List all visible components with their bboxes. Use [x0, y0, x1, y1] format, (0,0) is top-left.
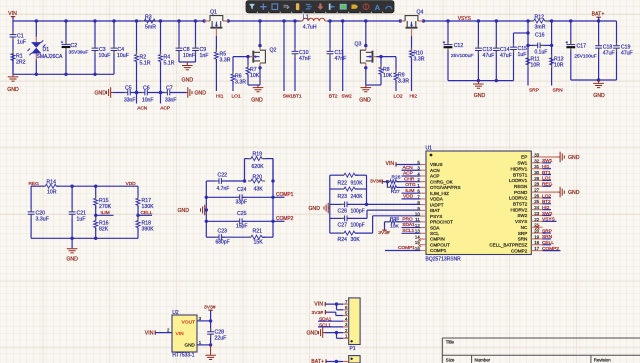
pin 15 CMPOUT: [420, 244, 426, 246]
svg-text:SW2: SW2: [341, 93, 352, 99]
svg-text:HIDRV2: HIDRV2: [511, 207, 528, 212]
svg-text:REG: REG: [542, 182, 553, 188]
net label VDD at pin7: [402, 198, 421, 200]
pin 25 BTST2: [531, 203, 542, 205]
svg-text:23: 23: [534, 211, 539, 216]
svg-text:5mR: 5mR: [145, 25, 156, 31]
svg-text:SDA1: SDA1: [402, 222, 415, 228]
no-connect CMPIN: [418, 239, 421, 242]
svg-text:1uF: 1uF: [518, 52, 527, 58]
capacitor C10 (BTST1): [294, 21, 296, 51]
svg-text:VSYS: VSYS: [515, 219, 527, 224]
net label ACP at pin4: [402, 175, 421, 177]
resistor R3 (5mR sense): [144, 19, 155, 23]
capacitor C27 / IBAT wire: [330, 217, 345, 219]
svg-text:47uF: 47uF: [603, 51, 615, 57]
resistor R14: [45, 184, 56, 188]
svg-text:R22: R22: [338, 180, 348, 186]
net label SDA1: [402, 227, 421, 229]
resistor R1: [11, 54, 15, 61]
svg-text:IBAT: IBAT: [430, 208, 440, 213]
svg-text:C5: C5: [125, 85, 132, 91]
capacitor C18: [598, 21, 600, 46]
svg-text:GND: GND: [178, 208, 190, 214]
wire SW node rail: [228, 20, 302, 22]
svg-text:SRN: SRN: [518, 237, 528, 242]
transistor Q4: [400, 20, 405, 22]
svg-text:15: 15: [415, 240, 420, 245]
pin 6 ILIM_HIZ: [420, 192, 426, 194]
wire Q2 source to gnd: [259, 63, 261, 68]
resistor R18: [136, 221, 140, 228]
toolbar icon no-erc: [363, 4, 369, 10]
ground under C28: [210, 345, 212, 355]
svg-text:GND: GND: [195, 91, 207, 97]
svg-text:R19: R19: [253, 151, 263, 157]
resistor R8: [379, 55, 382, 58]
svg-text:C17: C17: [577, 43, 587, 49]
svg-text:CHRG_OK: CHRG_OK: [430, 179, 454, 184]
svg-text:5.1R: 5.1R: [164, 61, 175, 67]
svg-text:240K: 240K: [351, 194, 364, 200]
wire VSYS rail: [423, 20, 533, 22]
pin 33 EP: [531, 156, 542, 158]
svg-text:GND: GND: [185, 342, 196, 347]
svg-text:SRN: SRN: [553, 88, 564, 94]
svg-text:SMAJ26CA: SMAJ26CA: [37, 54, 64, 60]
svg-text:R24: R24: [338, 237, 348, 243]
svg-text:NC: NC: [521, 225, 528, 230]
svg-text:GND: GND: [568, 190, 580, 196]
svg-text:COMP1: COMP1: [276, 192, 294, 198]
svg-text:C24: C24: [237, 187, 247, 193]
svg-text:HI1: HI1: [542, 164, 550, 170]
capacitor C9: [195, 21, 197, 48]
svg-text:100pF: 100pF: [351, 222, 365, 228]
svg-text:15K: 15K: [254, 240, 264, 246]
pin 3 VOUT: [197, 320, 211, 322]
svg-text:GND: GND: [66, 257, 78, 263]
resistor R26: [387, 181, 390, 183]
toolbar icon select: [272, 4, 278, 10]
svg-text:ILIM: ILIM: [405, 188, 414, 194]
svg-text:3V3#: 3V3#: [312, 310, 324, 316]
svg-text:SCL: SCL: [430, 231, 439, 236]
svg-text:LO2: LO2: [542, 193, 551, 199]
ground under Q3: [361, 85, 372, 92]
net label SW1: [543, 162, 552, 164]
svg-text:U2: U2: [172, 310, 179, 316]
net label COMP2: [273, 220, 285, 222]
wire C15 to SRP line: [514, 32, 529, 34]
svg-text:R2: R2: [140, 54, 147, 60]
svg-text:R18: R18: [142, 220, 152, 226]
wire Q1 gate / resistor R5: [215, 28, 217, 36]
wire divider bottom: [31, 237, 138, 239]
svg-text:HIDRV1: HIDRV1: [511, 166, 528, 171]
toolbar icon arc: [386, 6, 392, 9]
svg-text:P1: P1: [350, 346, 356, 352]
resistor R6: [232, 57, 234, 74]
net label CELL: [543, 244, 552, 246]
transistor Q1: [204, 20, 210, 22]
svg-text:22uF: 22uF: [215, 336, 227, 342]
svg-text:ACP: ACP: [403, 171, 413, 177]
svg-text:VDD: VDD: [126, 181, 137, 187]
svg-text:BT2: BT2: [329, 93, 338, 99]
svg-text:29: 29: [534, 176, 539, 181]
toolbar icon arrow down: [317, 3, 323, 9]
svg-text:PRO: PRO: [402, 216, 413, 222]
svg-text:ILIM: ILIM: [101, 210, 110, 216]
wire SRP line: [527, 21, 529, 86]
toolbar icon screen: [340, 4, 346, 9]
wire comp right vertical: [272, 159, 274, 238]
svg-text:Q4: Q4: [417, 9, 424, 15]
capacitor C19: [616, 21, 618, 46]
net label ACN: [135, 91, 138, 94]
svg-text:GND: GND: [95, 91, 107, 97]
wire comp left vertical: [205, 181, 207, 237]
svg-text:R23: R23: [338, 194, 348, 200]
ground comp block: [201, 205, 207, 216]
capacitor C8: [178, 21, 180, 48]
svg-text:SW1: SW1: [542, 158, 553, 164]
wire GND loop to pin1: [336, 333, 338, 339]
svg-text:R9: R9: [398, 73, 405, 79]
pin 27 PGND: [531, 191, 542, 193]
svg-text:R7: R7: [250, 67, 257, 73]
svg-text:CELL: CELL: [141, 210, 153, 216]
svg-text:620K: 620K: [252, 164, 265, 170]
resistor R9: [395, 57, 397, 73]
resistor R17: [137, 186, 139, 198]
svg-text:Q2: Q2: [270, 48, 277, 54]
svg-text:R14: R14: [47, 180, 57, 186]
svg-text:10uF: 10uF: [117, 53, 129, 59]
net label VSYS at pin22: [543, 220, 557, 222]
svg-text:GND: GND: [251, 98, 263, 104]
svg-text:GND: GND: [474, 93, 486, 99]
pin 2 VIN: [155, 332, 172, 334]
svg-text:3.3R: 3.3R: [235, 79, 246, 85]
svg-text:33nF: 33nF: [165, 98, 176, 104]
svg-text:R16: R16: [99, 220, 109, 226]
pin 12 SDA: [420, 227, 426, 229]
svg-text:VIN: VIN: [314, 301, 323, 307]
svg-text:BAT+: BAT+: [592, 11, 605, 17]
svg-text:14: 14: [415, 234, 420, 239]
title block: [442, 338, 640, 363]
pin 20 SRP: [531, 232, 542, 234]
svg-text:25: 25: [534, 199, 539, 204]
svg-text:SCL1: SCL1: [319, 323, 331, 329]
svg-text:28: 28: [534, 182, 539, 187]
svg-text:BQ25713RSNR: BQ25713RSNR: [426, 256, 462, 262]
svg-text:100pF: 100pF: [351, 208, 365, 214]
pin 8 IADPT: [420, 204, 426, 206]
svg-text:26: 26: [534, 193, 539, 198]
svg-text:HI1: HI1: [216, 93, 224, 99]
svg-text:R5: R5: [220, 52, 227, 58]
capacitor C28: [210, 321, 212, 332]
resistor R2: [136, 21, 138, 55]
capacitor C13: [477, 21, 479, 48]
toolbar icon nets: [306, 5, 312, 9]
svg-text:HT7533-1: HT7533-1: [172, 353, 194, 359]
svg-text:R25: R25: [390, 216, 399, 222]
capacitor C20: [30, 186, 32, 212]
wire Q3 source to gnd: [365, 63, 367, 68]
svg-text:Revision: Revision: [594, 357, 611, 362]
pin 5 P1: [343, 315, 349, 317]
net label SRN: [543, 238, 552, 240]
resistor R19: [244, 159, 246, 181]
pin 18 CELL_BATPRESZ: [531, 244, 542, 246]
net label LO1: [543, 179, 552, 181]
net label SCL1: [402, 232, 421, 234]
svg-text:GND: GND: [309, 206, 321, 212]
svg-text:SW1: SW1: [283, 93, 294, 99]
net label COMP1: [273, 196, 285, 198]
svg-text:COMP1: COMP1: [398, 245, 415, 251]
svg-text:10uF: 10uF: [99, 53, 111, 59]
ground at EP: [543, 156, 559, 158]
transistor Q2: [259, 21, 261, 46]
svg-text:10R: 10R: [554, 63, 564, 69]
capacitor C1: [12, 21, 14, 35]
pin 1 P1: [343, 337, 349, 339]
svg-text:10R: 10R: [47, 189, 57, 195]
svg-text:33pF: 33pF: [236, 200, 247, 206]
connector P2: [349, 356, 360, 363]
svg-text:VIN: VIN: [176, 331, 185, 337]
wire input bottom rail: [13, 73, 114, 75]
svg-text:R10: R10: [414, 50, 424, 56]
capacitor C3: [94, 21, 96, 48]
svg-text:30: 30: [534, 170, 539, 175]
pin 19 SRN: [531, 238, 542, 240]
svg-text:C27: C27: [338, 222, 348, 228]
pin 11 PROCHOT: [420, 221, 426, 223]
toolbar icon filter: [249, 4, 255, 9]
svg-text:ILIM_HIZ: ILIM_HIZ: [430, 191, 449, 196]
svg-text:VIN: VIN: [145, 331, 154, 337]
wire VIN loop to pin6: [336, 304, 338, 310]
pin 6 P1: [343, 309, 349, 311]
svg-text:47uF: 47uF: [500, 53, 512, 59]
wire C8/C9 join: [179, 61, 196, 63]
resistor R11: [526, 58, 530, 65]
svg-text:COMP2: COMP2: [511, 248, 528, 253]
pin 30 BTST1: [531, 174, 542, 176]
svg-text:CELL_BATPRESZ: CELL_BATPRESZ: [489, 242, 527, 247]
pin 17 COMP2: [531, 250, 542, 252]
capacitor C16: [528, 44, 538, 46]
svg-text:LO2: LO2: [394, 93, 403, 99]
svg-text:R17: R17: [142, 198, 152, 204]
capacitor C25: [206, 220, 239, 222]
wire SRN line: [551, 21, 553, 86]
svg-text:18: 18: [534, 240, 539, 245]
svg-text:BT1: BT1: [293, 93, 302, 99]
svg-text:LO1: LO1: [542, 176, 551, 182]
svg-text:Q1: Q1: [210, 9, 217, 15]
pin 13 SCL: [420, 232, 426, 234]
svg-text:BT1: BT1: [542, 170, 551, 176]
svg-text:C23: C23: [218, 229, 228, 235]
svg-text:C16: C16: [535, 32, 545, 38]
pin 26 LODRV2: [531, 197, 542, 199]
svg-text:R4: R4: [164, 54, 171, 60]
svg-text:CELL: CELL: [542, 240, 554, 246]
svg-text:R8: R8: [383, 67, 390, 73]
ground VSYS caps: [473, 81, 484, 89]
svg-text:10R: 10R: [531, 63, 541, 69]
pin 7 P1: [343, 303, 349, 305]
capacitor C11 (BTST2): [329, 21, 331, 51]
resistor R22: [330, 174, 344, 176]
ground under C8/C9: [182, 62, 193, 70]
svg-text:GND: GND: [7, 87, 19, 93]
svg-text:C6: C6: [143, 85, 150, 91]
svg-text:10K: 10K: [390, 224, 399, 230]
svg-text:VBUS: VBUS: [430, 162, 443, 167]
svg-text:17: 17: [534, 246, 539, 251]
svg-text:3mR: 3mR: [535, 25, 546, 31]
resistor R27: [390, 185, 397, 189]
capacitor C5: [128, 90, 130, 96]
net label HI1: [543, 168, 552, 170]
svg-text:PSYS: PSYS: [430, 214, 442, 219]
wire Q3 gate: [373, 56, 377, 58]
pin 10 PSYS: [420, 215, 426, 217]
svg-text:30K: 30K: [351, 237, 361, 243]
resistor R13: [550, 58, 554, 65]
svg-text:GND: GND: [182, 78, 194, 84]
svg-text:C2: C2: [71, 43, 78, 49]
svg-text:VIN: VIN: [386, 161, 395, 167]
svg-text:3.3R: 3.3R: [414, 56, 425, 62]
svg-text:GND: GND: [307, 331, 319, 337]
wire battery bottom rail: [571, 79, 617, 81]
svg-text:VDDA: VDDA: [430, 197, 444, 202]
svg-text:GND: GND: [568, 155, 580, 161]
svg-text:U1: U1: [426, 146, 433, 152]
svg-text:COMP2: COMP2: [276, 216, 294, 222]
net label ILIM: [94, 214, 97, 217]
svg-text:33nF: 33nF: [124, 98, 135, 104]
svg-text:HI2: HI2: [410, 93, 418, 99]
svg-text:R6: R6: [235, 73, 242, 79]
net label ACN at pin3: [402, 169, 421, 171]
ground iadpt block: [324, 203, 330, 214]
svg-text:15pF: 15pF: [236, 224, 247, 230]
net label REG: [543, 185, 552, 187]
svg-text:ACN: ACN: [430, 168, 440, 173]
svg-text:27: 27: [534, 188, 539, 193]
svg-text:43K: 43K: [254, 186, 264, 192]
svg-text:2R2: 2R2: [16, 60, 26, 66]
svg-text:910K: 910K: [351, 180, 364, 186]
svg-text:3V3#: 3V3#: [204, 304, 216, 310]
svg-text:82K: 82K: [99, 227, 109, 233]
capacitor C23: [206, 236, 219, 238]
diode D1 TVS: [35, 21, 37, 37]
svg-text:22: 22: [534, 217, 539, 222]
svg-text:LODRV2: LODRV2: [509, 196, 528, 201]
svg-text:SRP: SRP: [542, 228, 552, 234]
svg-text:R15: R15: [99, 198, 109, 204]
svg-text:R26: R26: [392, 174, 401, 180]
svg-text:47nF: 47nF: [299, 56, 311, 62]
wire iadpt block right vertical: [366, 175, 368, 204]
svg-text:4.7uH: 4.7uH: [303, 25, 317, 31]
svg-text:3.3R: 3.3R: [220, 58, 231, 64]
toolbar icon jump: [283, 5, 288, 9]
wire iadpt block left vertical: [329, 175, 331, 233]
svg-text:0.1uF: 0.1uF: [535, 50, 548, 56]
wire Q2 gate: [250, 56, 254, 58]
svg-text:VDD: VDD: [403, 193, 414, 199]
svg-text:PROCHOT: PROCHOT: [430, 220, 453, 225]
svg-text:C12: C12: [454, 43, 464, 49]
pin 23 SW2: [531, 215, 542, 217]
net label SW2: [342, 21, 344, 91]
svg-text:1uF: 1uF: [77, 216, 86, 222]
svg-text:25V100uF: 25V100uF: [574, 53, 597, 59]
svg-text:10K: 10K: [383, 73, 393, 79]
resistor R23: [330, 188, 344, 190]
ground divider: [71, 238, 73, 248]
pin 1 GND: [197, 344, 211, 346]
resistor R12 (3mR sense): [534, 19, 545, 23]
svg-text:ACN: ACN: [403, 165, 414, 171]
net label COMP1 at pin16: [385, 249, 420, 251]
svg-text:24: 24: [534, 205, 539, 210]
svg-text:A: A: [375, 3, 381, 12]
ground battery caps: [593, 80, 604, 88]
resistor R21: [251, 235, 262, 239]
svg-text:130K: 130K: [142, 204, 155, 210]
wire REG top: [31, 185, 45, 187]
no-connect CMPOUT: [418, 244, 421, 247]
svg-text:47uF: 47uF: [621, 51, 633, 57]
toolbar icon pointer bar: [329, 4, 331, 10]
svg-text:C22: C22: [218, 173, 228, 179]
svg-text:25V100uF: 25V100uF: [451, 53, 474, 59]
wire Q4 gate / resistor R10: [411, 28, 413, 36]
inductor L1: [300, 20, 302, 22]
svg-text:3.3uF: 3.3uF: [36, 216, 49, 222]
svg-text:C25: C25: [237, 211, 247, 217]
svg-text:VSYS: VSYS: [542, 217, 555, 223]
capacitor C2: [65, 21, 67, 44]
svg-text:33: 33: [534, 152, 539, 157]
resistor R16: [94, 221, 98, 228]
capacitor C4: [113, 21, 115, 48]
capacitor C22: [206, 180, 219, 182]
node VIN input rail: [12, 17, 14, 21]
svg-text:SW2: SW2: [517, 213, 527, 218]
pin 7 VDDA: [420, 198, 426, 200]
svg-text:GND: GND: [593, 93, 605, 99]
svg-text:SW1: SW1: [517, 161, 527, 166]
ground (right of C7): [186, 87, 192, 98]
pin 22 VSYS: [531, 220, 542, 222]
svg-text:D1: D1: [43, 47, 50, 53]
svg-text:3.3R: 3.3R: [398, 79, 409, 85]
